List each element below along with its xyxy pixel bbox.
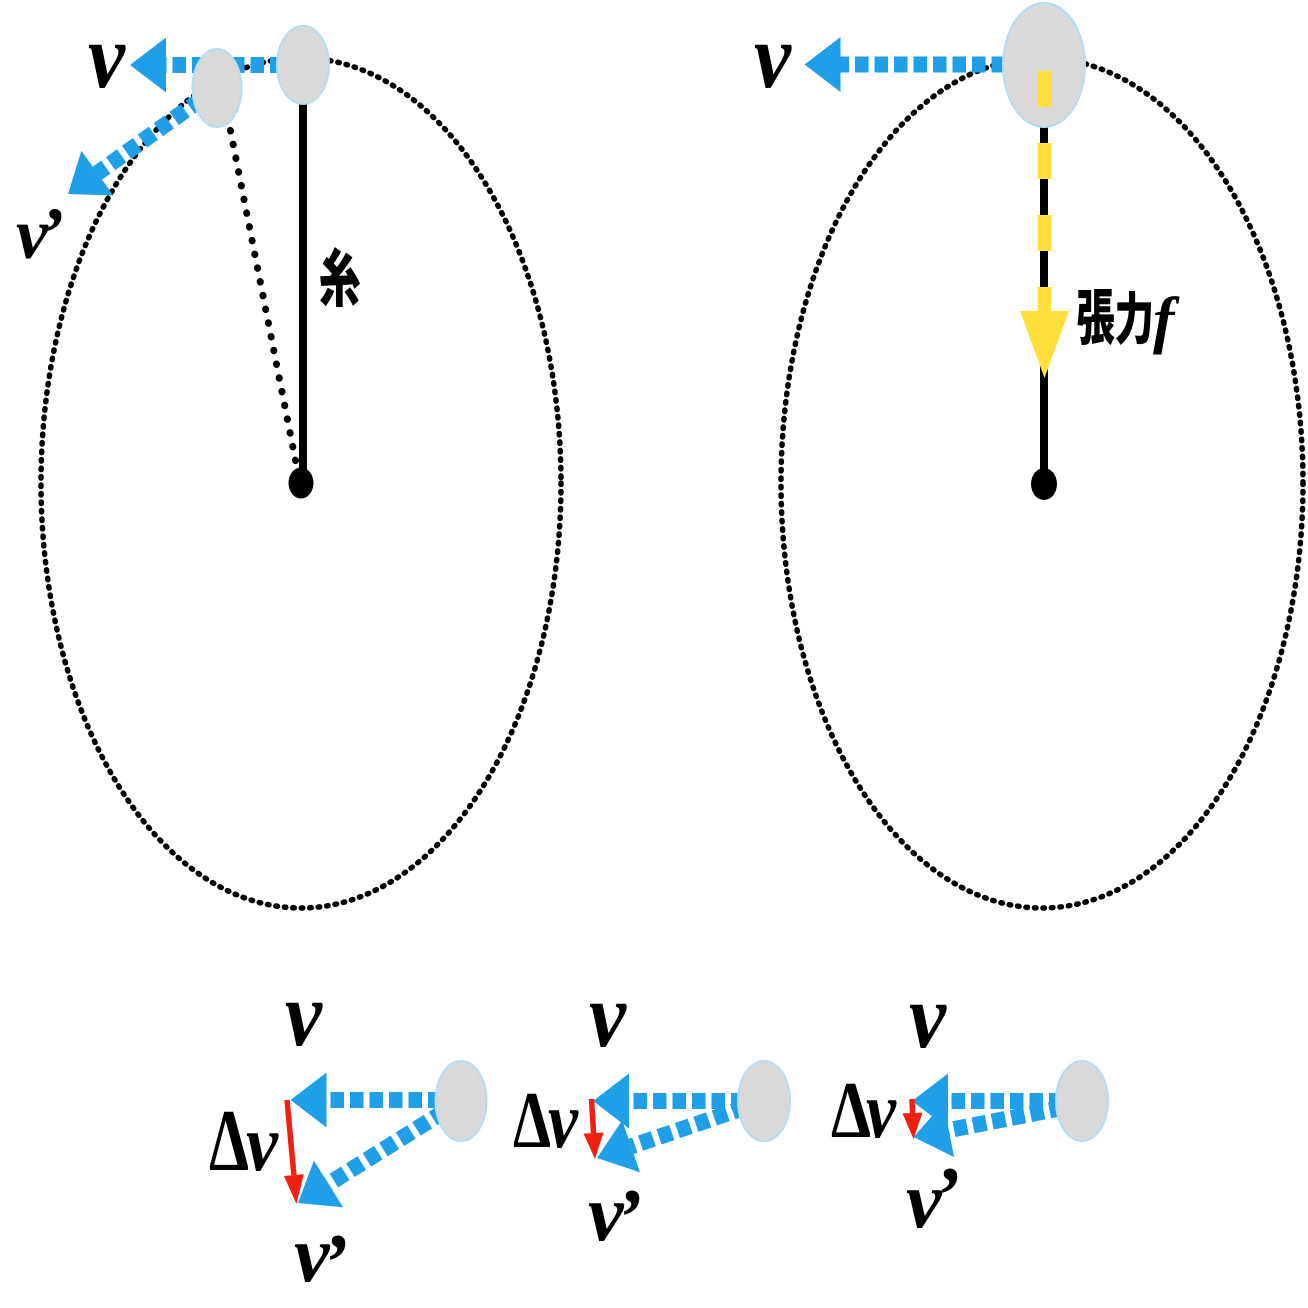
vector v (bottom-middle diagram) [593,1074,764,1129]
svg-text:v’: v’ [906,1152,960,1245]
svg-text:v: v [909,965,947,1067]
svg-text:v: v [754,5,792,107]
ball at top (right) [1003,3,1085,127]
svg-text:v: v [285,963,323,1065]
label ito (string) [320,247,360,307]
svg-text:v: v [88,5,126,107]
string from ball to center (right) [1040,120,1048,470]
delta-v arrow (bottom-middle diagram) [584,1099,604,1159]
svg-text:Δv: Δv [209,1093,279,1190]
ball at top of circle (left) [277,26,329,104]
label cho (tension 1st kanji) [1078,289,1115,345]
vector v (bottom-right diagram) [912,1074,1082,1129]
string (solid) from top ball to center [299,90,307,470]
ball (bottom-middle diagram) [738,1061,790,1141]
svg-text:v: v [589,964,627,1066]
velocity v arrow (left diagram) [130,38,303,93]
left circular path (dotted ellipse) [41,58,561,908]
svg-text:v’: v’ [16,193,64,274]
vector v' (bottom-right diagram) [914,1103,1083,1157]
delta-v arrow (bottom-right diagram) [903,1099,923,1139]
dotted string from displaced ball to center [225,103,297,468]
vector v (bottom-left diagram) [291,1073,462,1128]
displaced ball (left) [193,49,242,127]
vector v' (bottom-middle diagram) [597,1101,764,1172]
svg-text:Δv: Δv [831,1067,897,1155]
velocity v arrow (right diagram) [805,37,1045,92]
tension arrow head (yellow) [1020,311,1069,378]
tension dashed yellow line [1038,71,1052,312]
svg-text:Δv: Δv [513,1077,579,1165]
ball (bottom-left diagram) [436,1061,487,1141]
ball (bottom-right diagram) [1056,1061,1108,1141]
velocity v' arrow (left diagram) [68,88,217,196]
vector v' (bottom-left diagram) [298,1101,461,1207]
pivot center dot (right) [1031,468,1057,500]
svg-text:v’: v’ [588,1170,642,1262]
svg-text:v’: v’ [294,1211,348,1307]
pivot center dot (left) [289,468,314,499]
label ryoku (tension 2nd kanji) [1116,291,1151,345]
delta-v arrow (bottom-left diagram) [284,1100,304,1204]
right circular path (dotted ellipse) [781,58,1303,908]
svg-text:f: f [1153,284,1180,355]
